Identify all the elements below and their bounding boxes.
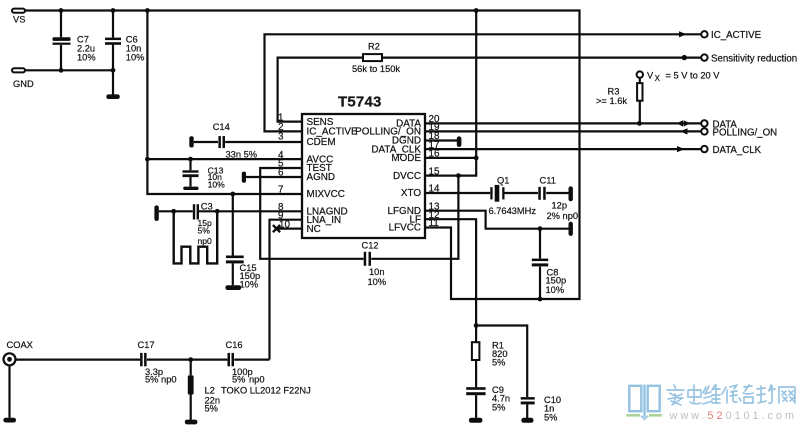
svg-text:VS: VS (13, 15, 25, 25)
svg-text:2% np0: 2% np0 (547, 211, 579, 221)
svg-text:10%: 10% (368, 277, 387, 287)
crystal Q1 (489, 176, 537, 216)
svg-text:10%: 10% (77, 52, 96, 62)
watermark url www.520101.com (669, 410, 797, 422)
IC op U1 T5743 box (302, 93, 425, 238)
terminal circle DATA_CLK (701, 146, 707, 152)
capacitor C11 (538, 176, 578, 222)
no-connect X mark on pin 10 (273, 225, 280, 232)
svg-text:GND: GND (13, 79, 34, 89)
node junction C6 on GND line (111, 68, 116, 73)
wire SENS pin 1 up to R2 line and to sensitivity terminal (278, 58, 701, 122)
svg-text:5%: 5% (205, 403, 218, 413)
wire VS drop x147 to AVCC and MIXVCC pin 7 (147, 11, 302, 195)
capacitor C14 (213, 122, 257, 160)
svg-text:MIXVCC: MIXVCC (307, 189, 345, 200)
svg-text:5%: 5% (544, 413, 557, 423)
wire VS top supply rail with right drop and bottom supply bus to LFVCC pin 11 (25, 11, 580, 300)
GND terminal pad (12, 68, 34, 89)
ground via bar AGND (242, 172, 246, 183)
svg-text:CDEM: CDEM (307, 137, 336, 148)
svg-text:10%: 10% (240, 280, 259, 290)
wire MODE pin 16 to supply vertical (425, 157, 476, 159)
ground bar under C10 (521, 418, 533, 423)
svg-text:= 5 V to 20 V: = 5 V to 20 V (666, 71, 721, 81)
resistor R3 pull-up (596, 78, 643, 123)
watermark book center tip (641, 416, 648, 419)
terminal circle Sensitivity reduction (701, 54, 707, 60)
wire IC_ACTIVE pin 2 up and right to terminal (265, 34, 702, 131)
svg-text:np0: np0 (198, 236, 213, 246)
svg-text:C12: C12 (362, 240, 379, 250)
node junction C8 bottom on supply bus (538, 297, 543, 302)
ground via bar C14 left (189, 136, 193, 147)
arrow POLLING input (680, 128, 688, 134)
node junction on rail at x147 (145, 8, 150, 13)
svg-text:6.7643MHz: 6.7643MHz (489, 206, 537, 216)
capacitor C10 (521, 395, 561, 423)
pin numbers left (278, 112, 291, 230)
svg-text:5%: 5% (232, 375, 245, 385)
svg-text:TOKO LL2012 F22NJ: TOKO LL2012 F22NJ (221, 385, 311, 395)
terminal circle IC_ACTIVE (701, 31, 707, 37)
svg-text:X: X (655, 74, 661, 83)
arrow DATA_CLK output (677, 146, 685, 152)
svg-text:7: 7 (278, 185, 284, 196)
svg-text:56k to 150k: 56k to 150k (352, 64, 400, 74)
arrow IC_ACTIVE output (679, 31, 687, 37)
svg-text:6: 6 (278, 168, 284, 179)
ground bar under C9 (469, 418, 483, 423)
svg-text:Sensitivity reduction: Sensitivity reduction (711, 53, 797, 64)
resistor R1 (472, 341, 508, 368)
node junction R3 bottom on DATA line (637, 121, 642, 126)
svg-text:DVCC: DVCC (393, 171, 421, 182)
node junction L2 top (188, 357, 193, 362)
svg-text:5%: 5% (492, 403, 505, 413)
svg-text:10%: 10% (208, 179, 226, 189)
capacitor C15 (225, 256, 260, 291)
watermark logo book icon (629, 385, 659, 418)
wire MIXVCC bypass drop to C15 (232, 194, 234, 256)
svg-text:10: 10 (279, 219, 290, 230)
wire POLLING pin 19 to terminal (425, 130, 701, 132)
svg-text:R2: R2 (368, 42, 380, 52)
svg-text:5% np0: 5% np0 (145, 375, 177, 385)
svg-text:5%: 5% (492, 358, 505, 368)
wire XTO pin 14 to crystal (425, 192, 569, 194)
svg-text:C14: C14 (213, 122, 230, 132)
svg-text:np0: np0 (249, 375, 265, 385)
node junction MODE on vertical (474, 156, 479, 161)
VS terminal pad (12, 9, 25, 25)
label VX = 5 V to 20 V (647, 71, 720, 83)
node junction DVCC to C12 drop (456, 173, 461, 178)
pin numbers right (429, 114, 440, 229)
svg-text:10%: 10% (126, 52, 145, 62)
wire DVCC pin 15 and supply vertical up to rail (425, 11, 476, 176)
wire LF branch to C10 (476, 326, 527, 398)
node junction C15 top (230, 192, 235, 197)
svg-text:POLLING/_ON: POLLING/_ON (713, 128, 778, 139)
node junction on rail at C7 (59, 8, 64, 13)
wire antenna input line (16, 359, 270, 361)
wire TEST pin 5 down and C12 line across to DVCC vertical (260, 168, 363, 259)
ground via bar LFGND right (569, 222, 573, 236)
svg-text:12p: 12p (552, 201, 568, 211)
svg-text:NC: NC (307, 224, 321, 235)
COAX connector (4, 340, 33, 365)
wire C12 line right half up to DVCC junction (371, 176, 458, 259)
svg-text:10%: 10% (546, 285, 565, 295)
ground via bar LNAGND left (154, 205, 158, 221)
node junction LF branch (474, 323, 479, 328)
svg-text:10n: 10n (369, 267, 385, 277)
node junction AVCC tee (145, 157, 150, 162)
node dot sensitivity line (682, 55, 687, 60)
svg-text:AGND: AGND (307, 172, 336, 183)
wire GND line (25, 69, 113, 71)
wire NC pin 10 stub (277, 228, 303, 230)
wire DATA pin 20 to terminal (425, 122, 701, 124)
capacitor C12 (362, 240, 387, 287)
ground bar COAX (3, 418, 16, 423)
svg-text:>= 1.6k: >= 1.6k (596, 96, 627, 106)
ground bar under C6 (106, 94, 120, 99)
node junction C3 left (171, 209, 176, 214)
svg-text:C3: C3 (201, 202, 213, 212)
wire LNAGND pin 8 line (159, 210, 302, 212)
arrow DATA double (677, 120, 691, 126)
node junction C3 right (215, 209, 220, 214)
capacitor C7 (53, 11, 96, 71)
capacitor C3 (193, 202, 213, 246)
svg-text:V: V (647, 71, 654, 81)
svg-text:C17: C17 (138, 340, 155, 350)
terminal circle DATA (701, 120, 707, 126)
wire AVCC pin 4 line (147, 158, 302, 160)
capacitor C17 (138, 340, 177, 385)
node junction on rail at x476 (474, 8, 479, 13)
svg-text:C11: C11 (540, 176, 556, 186)
terminal VX circle (637, 71, 643, 77)
ground via bar XTO right (569, 186, 573, 201)
svg-text:Q1: Q1 (497, 176, 509, 186)
node junction C13 top (188, 157, 193, 162)
svg-text:L2: L2 (205, 385, 215, 395)
capacitor C8 (532, 229, 566, 299)
wire AGND pin 6 line (246, 176, 302, 178)
wire DATA_CLK pin 17 to terminal (425, 148, 701, 150)
svg-text:5%: 5% (198, 225, 211, 235)
pin names right column (355, 119, 421, 234)
wire DGND pin 18 stub (425, 139, 458, 141)
svg-text:33n 5%: 33n 5% (226, 150, 258, 160)
ground via bar DGND (457, 136, 462, 147)
svg-text:DATA_CLK: DATA_CLK (713, 145, 762, 156)
inductor L2 (188, 360, 311, 420)
svg-text:T5743: T5743 (338, 93, 382, 110)
svg-text:IC_ACTIVE: IC_ACTIVE (307, 127, 358, 138)
capacitor C9 (466, 360, 510, 418)
node junction on rail at C6 (111, 8, 116, 13)
svg-text:www.520101.com: www.520101.com (669, 410, 797, 422)
svg-text:LFVCC: LFVCC (389, 223, 421, 234)
wire LNA_IN pin 9 down to matching network (270, 220, 303, 360)
wire CDEM pin 3 line (194, 141, 302, 143)
wire LF pin 12 down to loop filter R1 (425, 219, 476, 342)
capacitor C16 (226, 340, 265, 385)
terminal circle POLLING (701, 128, 707, 134)
svg-text:MODE: MODE (391, 153, 421, 164)
capacitor C6 (105, 11, 144, 96)
wire LFGND pin 13 around to via bar (425, 211, 569, 229)
svg-text:XTO: XTO (401, 188, 421, 199)
inductor stripline meander parallel with C3 (174, 211, 218, 263)
node junction C7 on GND line (59, 68, 64, 73)
svg-text:3: 3 (278, 132, 284, 143)
svg-text:COAX: COAX (7, 340, 33, 350)
watermark book base green (626, 414, 662, 417)
wire COAX down to ground (8, 365, 10, 418)
capacitor C13 (183, 159, 226, 190)
svg-text:IC_ACTIVE: IC_ACTIVE (711, 30, 762, 41)
node junction C8 top (538, 226, 543, 231)
svg-text:C16: C16 (226, 340, 243, 350)
pin names left column (307, 117, 358, 235)
resistor R2 (352, 42, 400, 75)
ground bar under L2 (185, 420, 198, 425)
watermark chinese characters (667, 385, 720, 405)
